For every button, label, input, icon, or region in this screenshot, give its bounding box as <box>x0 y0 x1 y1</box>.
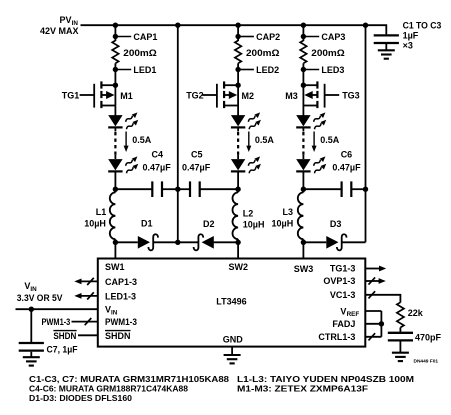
pin wire VC1-3 to RC <box>365 291 400 302</box>
value label C1 TO C3 1uF x3 <box>403 21 442 51</box>
wire D3 cathode to line B <box>343 241 366 243</box>
resistor R3 200mOhm <box>300 41 345 64</box>
wire VREF to tie line <box>365 310 381 312</box>
svg-text:0.47µF: 0.47µF <box>332 163 361 173</box>
LED D LED3b <box>296 156 328 174</box>
value label L3 10uH <box>272 207 294 228</box>
capacitor C7 1uF <box>19 343 44 351</box>
svg-text:CAP1: CAP1 <box>133 32 157 42</box>
value label C5 0.47uF <box>182 150 211 173</box>
node LED3 with tick <box>301 65 345 75</box>
wire ch2 vertical through LED2 node and M2 <box>237 63 239 115</box>
resistor R1 200mOhm <box>112 41 157 64</box>
wire ch2 dashed LED string <box>237 128 239 159</box>
wire 470pF to ground <box>399 342 401 353</box>
svg-text:0.47µF: 0.47µF <box>182 163 211 173</box>
wire ch3 node to C6 <box>303 188 341 190</box>
svg-text:C1 TO C3: C1 TO C3 <box>403 21 442 31</box>
wire ch3 vertical through LED3 node and M3 <box>302 63 304 115</box>
svg-text:OVP1-3: OVP1-3 <box>323 276 355 286</box>
svg-text:C5: C5 <box>191 150 203 160</box>
svg-text:CAP3: CAP3 <box>321 32 345 42</box>
pin arrow CAP1-3 bus <box>74 278 98 285</box>
svg-text:10µH: 10µH <box>243 219 265 229</box>
svg-text:C7, 1µF: C7, 1µF <box>47 344 78 354</box>
svg-text:PWM1-3: PWM1-3 <box>42 317 71 327</box>
svg-text:DN449 F01: DN449 F01 <box>414 359 439 365</box>
svg-text:PV: PV <box>60 15 72 25</box>
svg-text:FADJ: FADJ <box>332 319 355 329</box>
ground input bypass <box>378 50 395 58</box>
svg-text:M3: M3 <box>285 91 298 101</box>
wire FADJ to tie line <box>365 323 381 325</box>
wire D1 cathode to line A <box>154 241 178 243</box>
resistor R2 200mOhm <box>235 41 280 64</box>
resistor R 22k <box>397 302 424 327</box>
svg-text:1µF: 1µF <box>403 31 419 41</box>
svg-text:0.5A: 0.5A <box>132 135 152 145</box>
svg-text:D3: D3 <box>330 219 342 229</box>
svg-text:SHDN: SHDN <box>105 331 131 341</box>
wire lineA to C5 <box>178 188 190 190</box>
inductor L2 10uH <box>233 192 239 239</box>
wire ch3 vertical upper <box>302 25 304 41</box>
node VIN / C7 junction <box>29 307 34 312</box>
wire SW3 node to D3 <box>303 241 326 243</box>
diode D2 schottky <box>194 234 214 250</box>
svg-text:IN: IN <box>111 310 118 317</box>
svg-text:10µH: 10µH <box>84 218 106 228</box>
node junction dot rail/lineB <box>363 23 368 28</box>
wire ch1 LED bottom to node <box>114 171 116 192</box>
svg-text:C1-C3, C7: MURATA GRM31MR71H10: C1-C3, C7: MURATA GRM31MR71H105KA88 <box>29 374 229 384</box>
svg-text:L2: L2 <box>243 209 254 219</box>
capacitor C5 0.47uF <box>190 181 200 197</box>
wire C4 to line A <box>162 188 178 190</box>
svg-text:CAP2: CAP2 <box>256 32 280 42</box>
note components list left <box>29 374 229 403</box>
svg-text:42V MAX: 42V MAX <box>40 26 79 36</box>
LED D LED3a <box>296 112 328 130</box>
svg-text:SW1: SW1 <box>105 262 125 272</box>
wire L2 to SW2 node <box>237 239 239 258</box>
node ch3 SW3 junction <box>301 240 306 245</box>
wire SW2 node to D2 <box>214 241 239 243</box>
capacitor C6 0.47uF <box>342 181 352 197</box>
svg-text:PWM1-3: PWM1-3 <box>105 317 137 327</box>
svg-text:0.47µF: 0.47µF <box>143 163 172 173</box>
svg-text:M1: M1 <box>120 91 133 101</box>
svg-text:200mΩ: 200mΩ <box>123 48 157 58</box>
wire C6 to line B <box>351 188 365 190</box>
ground GND pin <box>224 355 241 363</box>
inductor L1 10uH <box>110 192 116 239</box>
svg-text:IN: IN <box>30 286 37 293</box>
value label L1 10uH <box>84 207 106 228</box>
wire L3 to SW3 node <box>302 239 304 258</box>
node junction dot rail/ch3 <box>301 23 306 28</box>
wire VIN to C7 <box>30 309 32 343</box>
capacitor C4 0.47uF <box>152 181 162 197</box>
svg-text:D1: D1 <box>141 219 153 229</box>
svg-text:LED3: LED3 <box>321 65 344 75</box>
node CAP2 with tick <box>235 32 280 42</box>
svg-text:M2: M2 <box>242 91 255 101</box>
svg-text:D1-D3: DIODES DFLS160: D1-D3: DIODES DFLS160 <box>29 393 132 403</box>
svg-text:REF: REF <box>347 311 360 318</box>
value label L2 10uH <box>243 209 265 230</box>
pin VREF label <box>340 306 359 318</box>
node LED2 with tick <box>235 65 279 75</box>
wire ch2 vertical upper <box>237 25 239 41</box>
svg-text:TG1-3: TG1-3 <box>330 264 356 274</box>
svg-text:200mΩ: 200mΩ <box>311 48 345 58</box>
pin arrow OVP1-3 bus <box>365 277 386 284</box>
node LED1 with tick <box>113 65 157 75</box>
wire ch1 vertical upper <box>114 25 116 41</box>
pin VIN label <box>105 305 118 317</box>
ground C7 <box>23 357 40 365</box>
svg-text:470pF: 470pF <box>415 332 442 342</box>
IC U1 LT3496 body <box>98 259 366 347</box>
wire PVIN return line A <box>177 25 179 242</box>
svg-text:L1-L3: TAIYO YUDEN NP04SZB 100: L1-L3: TAIYO YUDEN NP04SZB 100M <box>237 374 414 384</box>
transistor M2 PMOS <box>202 81 241 108</box>
svg-text:D2: D2 <box>203 219 215 229</box>
wire L1 to SW1 node <box>114 239 116 258</box>
svg-text:VC1-3: VC1-3 <box>330 290 356 300</box>
svg-text:22k: 22k <box>408 308 424 318</box>
diode D3 schottky <box>326 234 346 250</box>
wire SW1 node to D1 <box>115 241 137 243</box>
transistor M3 PMOS mirrored <box>301 81 340 108</box>
wire D2 cathode to line A <box>178 241 198 243</box>
capacitor C 470pF <box>388 333 413 341</box>
ground 470pF <box>392 353 409 361</box>
node junction dot rail/ch2 <box>235 23 240 28</box>
wire PVIN return line B <box>365 25 367 242</box>
svg-text:LED2: LED2 <box>256 65 279 75</box>
node lineA / D1 / D2 junction <box>175 240 180 245</box>
node lineB / C6 junction <box>363 187 368 192</box>
svg-text:C4-C6: MURATA GRM188R71C474KA8: C4-C6: MURATA GRM188R71C474KA88 <box>29 384 188 394</box>
pin wire SHDN input with overline <box>53 331 97 341</box>
value label C4 0.47uF <box>143 150 172 173</box>
svg-text:LED1: LED1 <box>133 65 156 75</box>
node ch2 LED/L2 junction <box>235 187 240 192</box>
node lineA / C4 / C5 junction <box>175 187 180 192</box>
svg-text:SHDN: SHDN <box>53 331 76 341</box>
svg-text:L1: L1 <box>96 207 107 217</box>
svg-text:SW2: SW2 <box>229 262 249 272</box>
svg-text:200mΩ: 200mΩ <box>246 48 280 58</box>
node ch1 LED/L1 junction <box>113 187 118 192</box>
transistor M1 PMOS <box>80 81 119 108</box>
value label C6 0.47uF <box>332 150 361 173</box>
wire input bypass branch <box>366 25 387 34</box>
label current arrow 0.5A ch2 <box>246 132 274 153</box>
diode D1 schottky <box>138 234 158 250</box>
node VIN label <box>17 281 63 303</box>
pin wire PWM1-3 input <box>42 317 98 327</box>
svg-text:SW3: SW3 <box>294 264 314 274</box>
pin arrow TG1-3 output <box>365 266 386 272</box>
svg-text:V: V <box>340 306 346 316</box>
pin arrow LED1-3 bus <box>74 292 98 299</box>
svg-text:0.5A: 0.5A <box>320 135 340 145</box>
wire ch1 dashed LED string <box>114 128 116 159</box>
node FADJ tie junction <box>379 321 384 326</box>
node CAP1 with tick <box>113 32 158 42</box>
svg-text:C4: C4 <box>152 150 164 160</box>
svg-text:×3: ×3 <box>403 41 413 51</box>
svg-text:L3: L3 <box>283 207 294 217</box>
wire C5 to ch2 node <box>200 188 238 190</box>
node junction dot rail/ch1 <box>113 23 118 28</box>
node ch1 SW1 junction <box>113 240 118 245</box>
wire PVIN top rail <box>81 24 366 26</box>
svg-text:TG3: TG3 <box>342 90 360 100</box>
wire cap to ground stem <box>385 44 387 50</box>
LED D LED1b <box>108 156 140 174</box>
wire C7 to ground <box>30 352 32 357</box>
node CAP3 with tick <box>301 32 346 42</box>
LED D LED2a <box>231 112 263 130</box>
svg-text:LT3496: LT3496 <box>216 296 246 306</box>
svg-text:0.5A: 0.5A <box>255 135 275 145</box>
LED D LED2b <box>231 156 263 174</box>
label current arrow 0.5A ch1 <box>124 132 152 153</box>
wire ch1 vertical through LED1 node and M1 <box>114 63 116 115</box>
node ch2 SW2 junction <box>235 240 240 245</box>
svg-text:TG1: TG1 <box>62 90 80 100</box>
wire ch1 node to C4 <box>115 188 152 190</box>
wire CTRL1-3 to tie line <box>365 333 381 340</box>
label current arrow 0.5A ch3 <box>312 132 340 153</box>
wire ch3 dashed LED string <box>302 128 304 159</box>
svg-text:CTRL1-3: CTRL1-3 <box>318 332 355 342</box>
svg-text:C6: C6 <box>341 150 353 160</box>
svg-text:GND: GND <box>223 334 244 344</box>
svg-text:CAP1-3: CAP1-3 <box>105 277 137 287</box>
wire VREF/FADJ/CTRL tie <box>380 311 382 337</box>
node ch3 LED/L3 junction <box>301 187 306 192</box>
node junction dot rail/lineA <box>175 23 180 28</box>
svg-text:M1-M3: ZETEX ZXMP6A13F: M1-M3: ZETEX ZXMP6A13F <box>237 384 368 394</box>
svg-text:10µH: 10µH <box>272 218 294 228</box>
capacitor C1 (C1 TO C3 bypass) <box>374 35 399 43</box>
node PVIN label <box>40 15 79 36</box>
wire ch3 LED bottom to node <box>302 171 304 192</box>
LED D LED1a <box>108 112 140 130</box>
svg-text:3.3V OR 5V: 3.3V OR 5V <box>17 293 63 303</box>
wire 22k to 470pF <box>399 328 401 333</box>
wire ch2 LED bottom to node <box>237 171 239 192</box>
inductor L3 10uH <box>298 192 304 239</box>
wire VIN input <box>16 308 98 310</box>
svg-text:LED1-3: LED1-3 <box>105 291 136 301</box>
note components list right <box>237 374 414 394</box>
value label C7 1uF <box>44 344 78 354</box>
wire GND pin stem <box>231 347 233 355</box>
svg-text:TG2: TG2 <box>186 90 204 100</box>
pin SHDN label with overline <box>105 331 131 341</box>
